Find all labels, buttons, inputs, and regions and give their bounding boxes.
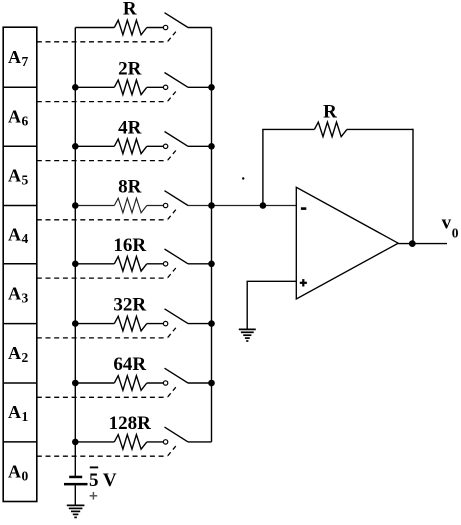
junction: output node — [409, 240, 416, 247]
switch S6 (bit A5) — [163, 132, 188, 149]
svg-text:8R: 8R — [118, 177, 142, 198]
wire: switch S2 to right bus — [188, 382, 212, 384]
junction: right bus / 4R row — [208, 143, 215, 150]
wire: battery positive plate to ground — [74, 485, 76, 505]
svg-text:16R: 16R — [113, 235, 146, 256]
wire: resistor 16R to switch contact — [147, 263, 164, 265]
resistor R — [114, 20, 147, 35]
switch S1 (bit A0) — [163, 427, 188, 444]
switch S8 (bit A7) — [163, 13, 188, 30]
junction: right bus / 32R row — [208, 320, 215, 327]
wire: switch S4 to right bus — [188, 263, 212, 265]
control line: A6 to switch S7 (dashed) — [37, 91, 176, 102]
left bus wire (reference voltage rail from -5V battery) — [74, 28, 76, 477]
resistor 64R — [114, 376, 147, 391]
junction: right bus / 8R row — [208, 202, 215, 209]
wire: resistor 128R to switch contact — [147, 441, 164, 443]
svg-text:0: 0 — [452, 226, 459, 241]
wire: summing node up to feedback resistor — [262, 129, 264, 205]
svg-text:7: 7 — [22, 54, 29, 69]
label A1 (bit 1) — [8, 402, 29, 424]
wire: resistor 4R to switch contact — [147, 145, 164, 147]
wire: switch S3 to right bus — [188, 323, 212, 325]
svg-text:A: A — [8, 462, 21, 482]
svg-text:32R: 32R — [113, 295, 146, 316]
resistor 4R — [114, 139, 147, 154]
svg-text:5: 5 — [22, 173, 29, 188]
control line: A3 to switch S4 (dashed) — [37, 268, 176, 279]
resistor 8R — [114, 198, 147, 213]
svg-text:128R: 128R — [109, 413, 152, 434]
wire: switch S8 to right bus — [188, 27, 212, 29]
resistor 2R — [114, 80, 147, 95]
svg-text:2: 2 — [22, 350, 29, 365]
resistor R (feedback) — [314, 122, 347, 137]
input register box column (bits A7..A0) — [3, 27, 37, 501]
control line: A4 to switch S5 (dashed) — [37, 209, 176, 220]
wire: switch S5 through summing bus to op-amp inverting input — [188, 205, 296, 207]
label A5 (bit 5) — [8, 166, 29, 188]
wire: op-amp output — [398, 243, 447, 245]
node (stray dot mark) — [242, 177, 244, 179]
svg-text:6: 6 — [22, 113, 29, 128]
wire: left bus to resistor 16R — [75, 263, 114, 265]
wire: left bus to resistor 4R — [75, 145, 114, 147]
svg-text:A: A — [8, 402, 21, 422]
label A6 (bit 6) — [8, 107, 29, 129]
wire: switch S1 to right bus — [188, 441, 212, 443]
svg-text:2R: 2R — [118, 58, 142, 79]
wire: left bus to resistor R — [75, 27, 114, 29]
wire: left bus to resistor 64R — [75, 382, 114, 384]
control line: A7 to switch S8 (dashed) — [37, 31, 176, 42]
junction: right bus / 64R row — [208, 380, 215, 387]
wire: resistor 2R to switch contact — [147, 86, 164, 88]
label + (battery positive) — [90, 492, 98, 500]
svg-text:3: 3 — [22, 290, 29, 305]
switch S5 (bit A4) — [163, 191, 188, 208]
switch S7 (bit A6) — [163, 73, 188, 90]
svg-text:A: A — [8, 225, 21, 245]
resistor 32R — [114, 316, 147, 331]
junction: left bus / 8R row — [72, 202, 79, 209]
right bus wire (summing bus to op-amp) — [211, 28, 213, 442]
svg-text:A: A — [8, 107, 21, 127]
control line: A0 to switch S1 (dashed) — [37, 446, 176, 457]
svg-text:4R: 4R — [118, 117, 142, 138]
svg-text:1: 1 — [22, 409, 29, 424]
resistor 128R — [114, 435, 147, 450]
battery V1 (-5 V), negative plate up — [64, 476, 88, 486]
control line: A1 to switch S2 (dashed) — [37, 387, 176, 398]
switch S2 (bit A1) — [163, 368, 188, 385]
wire: feedback top-left horizontal — [262, 128, 314, 130]
svg-text:A: A — [8, 343, 21, 363]
svg-text:0: 0 — [22, 468, 29, 483]
junction: right bus / 16R row — [208, 261, 215, 268]
switch S3 (bit A2) — [163, 309, 188, 326]
value label "-5 V" (overbar minus) — [89, 467, 117, 491]
svg-text:64R: 64R — [113, 354, 146, 375]
switch S4 (bit A3) — [163, 249, 188, 266]
wire: switch S7 to right bus — [188, 86, 212, 88]
junction: right bus / 2R row — [208, 84, 215, 91]
wire: left bus to resistor 2R — [75, 86, 114, 88]
svg-text:4: 4 — [22, 231, 29, 246]
junction: left bus / 2R row — [72, 84, 79, 91]
wire: left bus to resistor 8R — [75, 205, 114, 207]
wire: resistor R to switch contact — [147, 27, 164, 29]
junction: left bus / 16R row — [72, 261, 79, 268]
svg-text:R: R — [123, 0, 137, 20]
label v0 (output voltage) — [442, 213, 459, 241]
junction: left bus / 32R row — [72, 320, 79, 327]
resistor 16R — [114, 257, 147, 272]
wire: op-amp non-inverting input to ground — [247, 281, 296, 329]
wire: left bus to resistor 32R — [75, 323, 114, 325]
junction: left bus / 4R row — [72, 143, 79, 150]
svg-text:R: R — [323, 102, 337, 123]
wire: feedback right vertical to output — [412, 129, 414, 244]
control line: A5 to switch S6 (dashed) — [37, 150, 176, 161]
label A2 (bit 2) — [8, 343, 29, 365]
label A7 (bit 7) — [8, 47, 29, 69]
svg-text:v: v — [442, 213, 452, 234]
svg-text:A: A — [8, 166, 21, 186]
label A4 (bit 4) — [8, 225, 29, 247]
control line: A2 to switch S3 (dashed) — [37, 327, 176, 338]
wire: resistor 64R to switch contact — [147, 382, 164, 384]
wire: resistor 8R to switch contact — [147, 205, 164, 207]
wire: resistor 32R to switch contact — [147, 323, 164, 325]
wire: feedback top-right horizontal — [347, 128, 413, 130]
junction: summing node (feedback tap) — [260, 202, 267, 209]
junction: left bus / 128R row — [72, 439, 79, 446]
wire: switch S6 to right bus — [188, 145, 212, 147]
wire: left bus to resistor 128R — [75, 441, 114, 443]
op-amp U1 — [296, 187, 398, 299]
svg-text:A: A — [8, 284, 21, 304]
junction: left bus / 64R row — [72, 380, 79, 387]
ground (battery positive terminal) — [67, 505, 85, 517]
ground (op-amp non-inverting input) — [239, 329, 256, 341]
svg-text:A: A — [8, 47, 21, 67]
label A3 (bit 3) — [8, 284, 29, 306]
label A0 (bit 0) — [8, 462, 29, 484]
svg-text:5 V: 5 V — [89, 470, 117, 491]
